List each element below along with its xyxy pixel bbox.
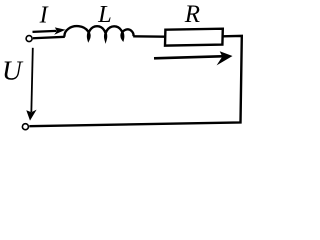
voltage arrow U head: [26, 110, 36, 121]
svg-text:R: R: [184, 1, 200, 28]
inductor L coil: [64, 26, 133, 40]
svg-text:L: L: [97, 1, 112, 28]
voltage arrow U line: [31, 48, 32, 112]
wire top-left horizontal: [33, 37, 65, 38]
current arrow I shaft: [33, 31, 57, 32]
terminal bottom-left: [22, 124, 28, 130]
wire inductor to resistor: [133, 35, 165, 38]
terminal top-left: [26, 36, 32, 42]
current arrow I head: [54, 27, 65, 34]
wire resistor to top-right corner, right side, bottom: [29, 36, 242, 126]
arrow under resistor shaft: [154, 56, 226, 58]
svg-text:I: I: [39, 2, 49, 28]
resistor R box: [165, 29, 223, 46]
svg-text:U: U: [2, 55, 24, 86]
arrow under resistor head: [217, 51, 233, 65]
